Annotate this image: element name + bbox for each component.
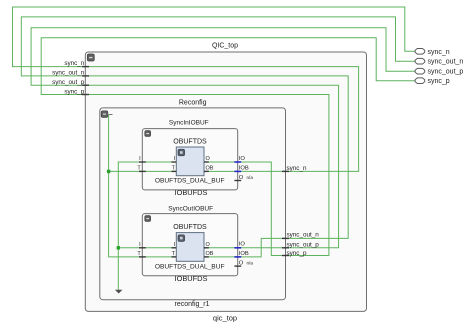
pin stub S1 T — [172, 170, 177, 172]
port sync_out_p octagon — [415, 68, 425, 74]
pin stub Reconfig sync_n — [282, 170, 289, 172]
svg-text:OB: OB — [206, 251, 214, 257]
stub from Reconfig icon — [107, 114, 112, 116]
svg-text:n/a: n/a — [247, 260, 254, 265]
cell SyncInIOBUF box (IOBUFDS) — [142, 129, 237, 190]
svg-text:reconfig_r1: reconfig_r1 — [174, 301, 209, 308]
module QIC_top box — [85, 52, 366, 311]
svg-text:OBUFTDS: OBUFTDS — [173, 138, 207, 145]
pin stub S1 I — [172, 161, 177, 163]
pin stub box2 O — [234, 265, 241, 267]
collapse icon box2 — [145, 216, 151, 222]
pin stub box2 I — [139, 247, 146, 249]
pin stub Reconfig sync_out_p — [282, 247, 289, 249]
wire net T (to box T pins) — [109, 115, 177, 257]
wire sync_out_p inside QIC_top — [85, 85, 338, 248]
svg-text:SyncOutIOBUF: SyncOutIOBUF — [168, 206, 213, 213]
svg-text:O: O — [206, 242, 211, 248]
svg-text:sync_n: sync_n — [64, 60, 84, 67]
pin stub box1 I — [139, 161, 146, 163]
svg-text:sync_p: sync_p — [64, 89, 84, 96]
op symbol OBUFTDS_DUAL_BUF (blue square in box1) — [176, 147, 204, 176]
wire sync_out_n outer loop — [21, 17, 415, 76]
pin stub box1 IO (blue) — [234, 161, 241, 163]
svg-text:SyncInIOBUF: SyncInIOBUF — [169, 120, 209, 127]
op symbol OBUFTDS_DUAL_BUF (blue square in box2) — [176, 233, 204, 262]
wire sync_n outer loop — [13, 7, 416, 67]
svg-text:OBUFTDS: OBUFTDS — [173, 224, 207, 231]
svg-text:sync_p: sync_p — [287, 250, 307, 257]
svg-text:IOBUFDS: IOBUFDS — [175, 188, 208, 197]
svg-text:IOBUFDS: IOBUFDS — [175, 274, 208, 283]
port sync_p octagon — [415, 78, 425, 84]
collapse icon box1 — [145, 131, 151, 137]
wire branch I to box2 — [118, 247, 176, 249]
pin stub S2 I — [172, 247, 177, 249]
ground symbol — [115, 290, 123, 294]
svg-text:QIC_top: QIC_top — [212, 42, 238, 49]
svg-text:sync_n: sync_n — [428, 49, 450, 56]
svg-text:IOB: IOB — [239, 165, 249, 171]
pin stub Reconfig sync_p — [282, 255, 289, 257]
pin stub S1 O — [204, 161, 209, 163]
wire sync_n from box1 IOB to Reconfig edge — [204, 170, 286, 172]
pin stub S1 OB — [204, 170, 209, 172]
svg-text:sync_out_n: sync_out_n — [287, 232, 320, 239]
port sync_n octagon — [415, 49, 425, 55]
svg-text:Reconfig: Reconfig — [179, 100, 207, 107]
svg-text:OB: OB — [206, 166, 214, 172]
cell SyncOutIOBUF box (IOBUFDS) — [142, 214, 237, 276]
collapse icon Reconfig — [101, 111, 108, 118]
svg-text:sync_out_p: sync_out_p — [52, 79, 85, 86]
pin stub Reconfig sync_out_n — [282, 237, 289, 239]
pin stub QIC_top sync_p — [82, 94, 89, 96]
wire sync_n inside QIC_top — [85, 67, 358, 172]
wire sync_p outer loop — [41, 38, 415, 95]
pin stub S2 T — [172, 256, 177, 258]
wire branch T to box1 — [109, 170, 177, 172]
pin stub S2 OB — [204, 256, 209, 258]
svg-text:O: O — [206, 156, 211, 162]
pin stub box2 IO (blue) — [234, 247, 241, 249]
pin stub box2 IOB (blue) — [234, 256, 241, 258]
svg-text:IO: IO — [239, 242, 246, 248]
svg-text:OBUFTDS_DUAL_BUF: OBUFTDS_DUAL_BUF — [155, 178, 225, 185]
pin stub box1 O — [234, 180, 241, 182]
module Reconfig box — [100, 108, 286, 300]
pin stub S2 O — [204, 247, 209, 249]
wire sync_out_n from box2 IOB — [204, 238, 286, 257]
wire sync_out_p outer loop — [31, 28, 415, 85]
svg-text:O: O — [239, 175, 244, 181]
pin stub QIC_top sync_n — [82, 66, 89, 68]
svg-text:sync_out_p: sync_out_p — [287, 241, 320, 248]
svg-text:sync_out_n: sync_out_n — [52, 70, 85, 77]
svg-text:OBUFTDS_DUAL_BUF: OBUFTDS_DUAL_BUF — [155, 263, 225, 270]
port sync_out_n octagon — [415, 58, 425, 64]
svg-text:qic_top: qic_top — [213, 314, 237, 323]
pin stub QIC_top sync_out_p — [82, 84, 89, 86]
pin stub box1 IOB (blue) — [234, 170, 241, 172]
svg-text:IOB: IOB — [239, 251, 249, 257]
collapse icon QIC_top — [87, 54, 94, 61]
svg-text:sync_out_p: sync_out_p — [428, 69, 464, 76]
wire sync_out_n inside QIC_top — [85, 76, 348, 239]
svg-text:O: O — [239, 260, 244, 266]
junction dot T net — [107, 170, 110, 173]
svg-text:n/a: n/a — [247, 175, 254, 180]
wire sync_p from box1 IO — [204, 162, 286, 256]
pin stub box2 T — [139, 256, 146, 258]
svg-text:sync_p: sync_p — [428, 78, 450, 85]
wire sync_p inside QIC_top — [85, 95, 329, 256]
svg-text:sync_out_n: sync_out_n — [428, 59, 464, 66]
svg-text:sync_n: sync_n — [287, 165, 307, 172]
svg-text:IO: IO — [239, 156, 246, 162]
junction dot I net — [117, 246, 120, 249]
pin stub QIC_top sync_out_n — [82, 75, 89, 77]
wire sync_out_p from box2 IO — [204, 247, 286, 249]
wire net I/GND vertical — [118, 162, 176, 290]
pin stub box1 T — [139, 170, 146, 172]
